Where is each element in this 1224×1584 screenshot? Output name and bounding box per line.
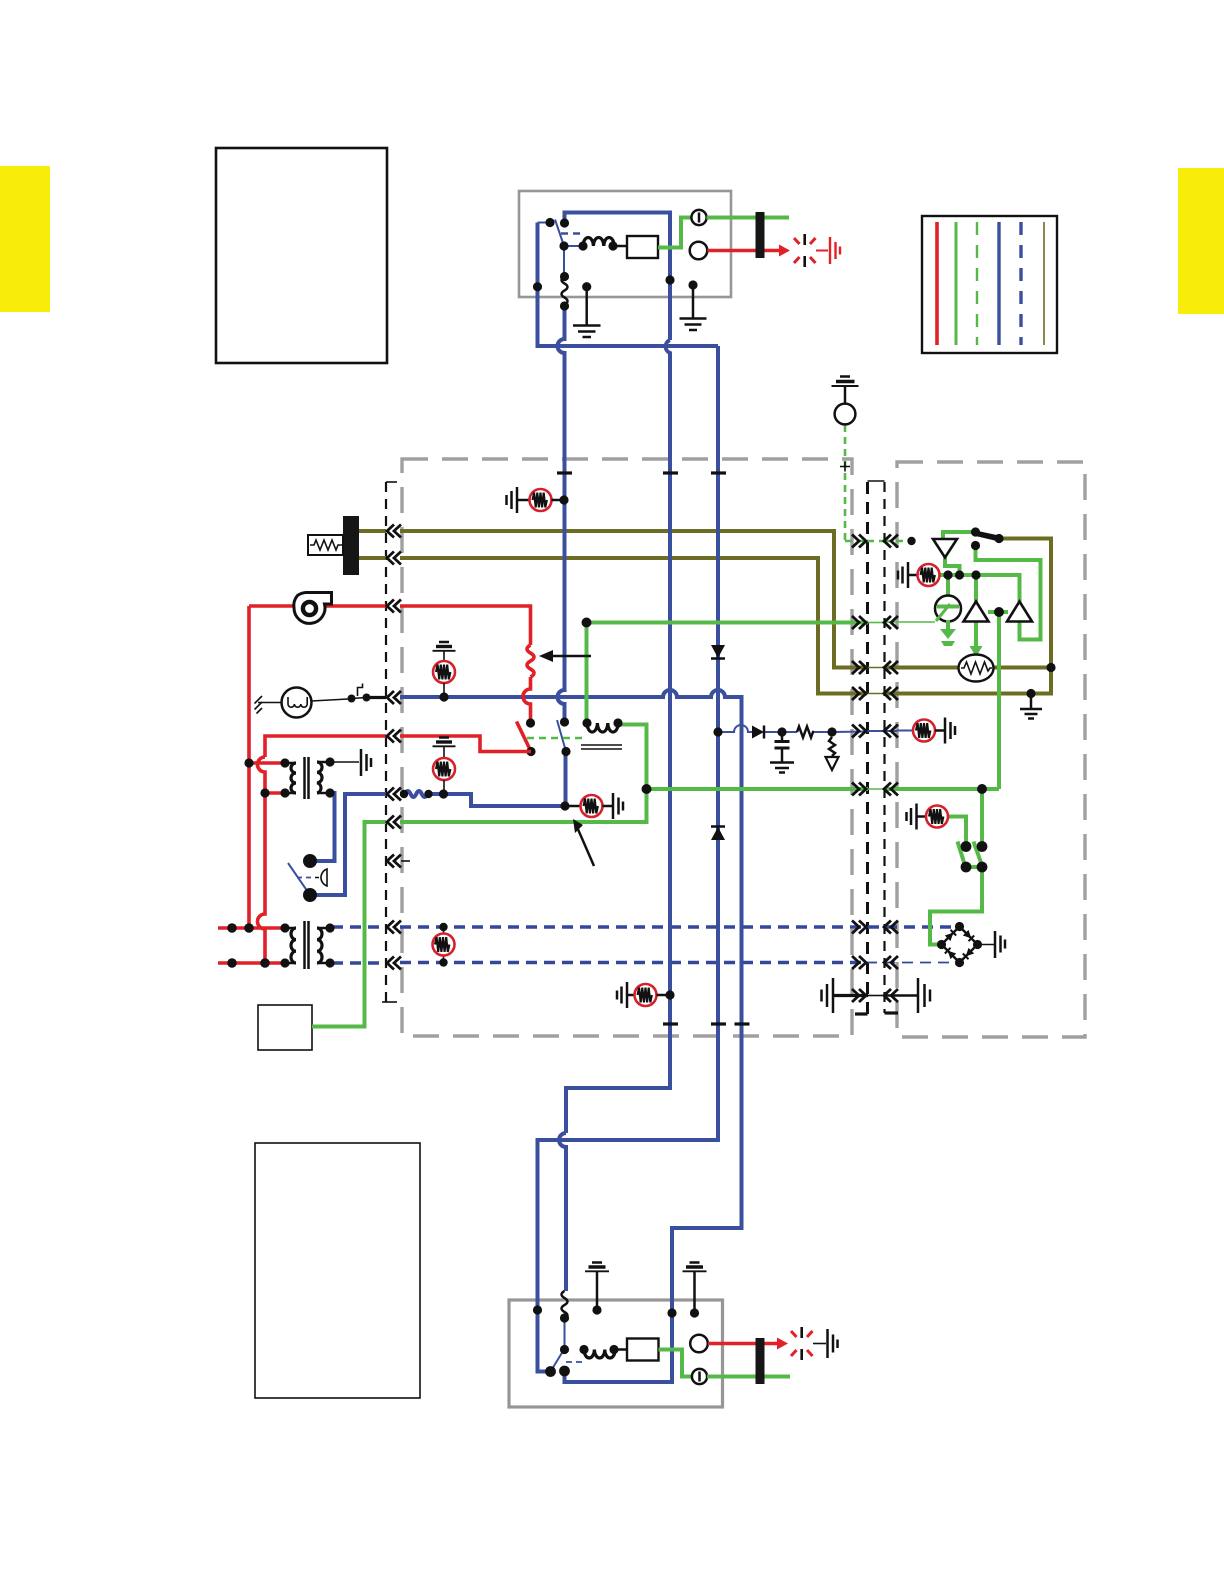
wire red T-A top row bbox=[249, 761, 285, 765]
wire green row 789 to right box bbox=[647, 787, 869, 791]
glow plug resistor zigzag bbox=[310, 540, 343, 550]
wire blue x564 hop over 346 (from CDI squiggle) bbox=[558, 305, 565, 473]
left yellow tab bbox=[0, 166, 50, 312]
top CDI switch lead thin bbox=[538, 222, 551, 224]
wire red pot to hop to contact bbox=[523, 677, 531, 723]
top CDI squiggle lead bbox=[562, 277, 568, 306]
wire blue x670 vertical with hop at 346 bbox=[566, 340, 670, 1133]
top CDI switch contact dots bbox=[545, 218, 554, 227]
bridge rectifier diamond bbox=[937, 922, 982, 967]
connector column middle B (black dashed) bbox=[883, 482, 885, 1013]
top CDI coil terminal dots bbox=[578, 241, 587, 250]
connector chevrons left column (point left) bbox=[387, 525, 401, 970]
green arrow into oval bbox=[970, 646, 983, 657]
top CDI inner box bbox=[627, 236, 658, 258]
wire blue buzzer switch circuit from transformer bbox=[310, 793, 335, 861]
wire green T2 base to loop bbox=[976, 546, 1041, 640]
bridge to ground bbox=[978, 931, 1006, 958]
wire green sensor drain bbox=[946, 620, 950, 630]
buzzer switch pivot dot bbox=[303, 888, 317, 902]
legend olive thin line bbox=[1043, 222, 1045, 345]
top connector pass-through bar bbox=[756, 212, 765, 258]
red switch contact dot bbox=[526, 718, 535, 727]
component box (small) left bbox=[258, 1005, 312, 1050]
junction dot green 789 bbox=[642, 784, 652, 794]
connector column left bottom bracket bbox=[382, 1001, 397, 1003]
top spark to ground red bbox=[816, 250, 828, 252]
wire green suppressor D to double switch bbox=[940, 817, 966, 847]
title box (empty) top-left bbox=[216, 148, 387, 363]
ground-to-ground row 995 left bbox=[822, 978, 885, 1013]
noise suppressor C between dashed rows bbox=[433, 934, 455, 956]
wire blue x718 main vertical down to bottom jog bbox=[538, 346, 719, 1372]
wire blue switch pivot down to junction 806 bbox=[564, 752, 568, 807]
wire blue dashed row 962 left of connector bbox=[332, 961, 386, 965]
legend blue solid line bbox=[997, 222, 1000, 345]
double switch blades bbox=[958, 842, 965, 865]
bottom CDI switch blade bbox=[551, 1350, 565, 1372]
wire blue thin row 730 right box to suppressor bbox=[897, 730, 913, 732]
bottom connector pass-through bar bbox=[756, 1338, 765, 1384]
junction dot olive x1051 row668 bbox=[1046, 663, 1055, 672]
wire green bus to T1 vertical bbox=[974, 575, 978, 602]
top CDI pivot down lead bbox=[563, 246, 565, 277]
blue switch (relay) contact dot bbox=[560, 717, 569, 726]
blue switch pivot dot bbox=[561, 747, 570, 756]
wire blue dashed row 962 connector to middle bbox=[400, 961, 868, 965]
CDI unit box (top) frame bbox=[519, 191, 731, 297]
test connector circle with ground (top) bbox=[832, 377, 859, 425]
junction dots green bus bbox=[943, 570, 952, 579]
wire olive row1 long (531) to vertical x834 down to row 668 bbox=[400, 531, 867, 668]
wire green row 622 from relay coil junction to connector bbox=[587, 621, 869, 625]
noise suppressor B3 (row 806) bbox=[560, 793, 623, 819]
transformer T-A core and windings bbox=[280, 757, 334, 799]
wire blue CDI top link thick bbox=[565, 213, 671, 341]
green dashed end dot bbox=[907, 537, 915, 545]
legend green dashed line bbox=[976, 222, 978, 345]
top CDI inner junction dots bbox=[533, 282, 542, 291]
connector chevrons middle left set (point right) bbox=[852, 535, 866, 1003]
connector column left (black dashed) bbox=[385, 482, 387, 1002]
noise suppressor D (right box row 816) bbox=[907, 804, 949, 830]
up triangle T2 bbox=[1007, 602, 1032, 622]
top CDI switch blade bbox=[555, 220, 564, 247]
lone chevron stub row 861 bbox=[401, 860, 410, 862]
wire green T1 base into heater oval bbox=[974, 622, 978, 651]
diode on x718 upper (pointing down) bbox=[711, 645, 725, 659]
green dashed row 541 bbox=[845, 540, 868, 543]
wire green long vertical x999 bbox=[997, 612, 1001, 789]
capacitor to ground row732 bbox=[770, 732, 794, 773]
green dashed drop from test connector bbox=[844, 425, 847, 541]
wire blue thin 732 segments bbox=[764, 731, 797, 733]
bottom green wire out bbox=[707, 1375, 790, 1379]
wire green row789 junction down to switch bbox=[980, 789, 984, 847]
ground-to-ground row 995 right bbox=[884, 978, 930, 1013]
ticks on blue verticals at bottom border bbox=[663, 1022, 678, 1025]
red switch pivot dot bbox=[526, 747, 535, 756]
connector column A bottom bracket bbox=[855, 1012, 868, 1015]
top CDI dashed link bbox=[561, 232, 582, 235]
up triangle T1 bbox=[964, 602, 989, 622]
ground below olive row694 bbox=[1020, 694, 1042, 719]
glow plug resistor box bbox=[308, 535, 343, 555]
wire red switch return to chevron row736 bbox=[400, 736, 531, 752]
CDI unit box (bottom) frame bbox=[509, 1300, 723, 1407]
pump / fan motor symbol bbox=[294, 592, 332, 623]
down triangle sensor (right box) bbox=[933, 539, 957, 558]
note box (empty) bottom-left bbox=[255, 1143, 420, 1398]
junction dot olive ground tap row694 bbox=[1026, 689, 1035, 698]
wire blue thin 732 to chevrons bbox=[832, 731, 868, 734]
wire blue thin row 732 diode chain bbox=[718, 725, 752, 732]
main harness dashed border (left big box) bbox=[402, 459, 852, 1036]
bottom CDI relay coil (loops down) bbox=[579, 1345, 627, 1358]
pot adjust arrow bbox=[539, 650, 591, 662]
bottom spark gap symbol bbox=[791, 1331, 813, 1356]
wire blue buzzer pivot to row 794 bbox=[310, 794, 386, 895]
wire blue x564 down to switch contact with hop at 697 bbox=[558, 473, 565, 722]
wire olive row2 right segment bbox=[884, 692, 897, 696]
blue switch blade mid bbox=[557, 720, 566, 752]
junction dots red bbox=[244, 758, 253, 767]
top red HT wire with arrow bbox=[708, 249, 780, 253]
bottom spark to ground black bbox=[813, 1343, 826, 1345]
top CDI connector circle I bbox=[691, 210, 706, 225]
wire red T-B bottom row bbox=[218, 961, 285, 965]
noise suppressor B1 (above horn row) bbox=[433, 642, 456, 702]
annotation arrow to suppressor B3 bbox=[573, 819, 594, 866]
junction dot dashed row 927 bbox=[439, 923, 447, 931]
horn symbol bbox=[255, 684, 387, 718]
connector chevrons middle right set (point left) bbox=[884, 535, 898, 1003]
wire green left drop to small box bbox=[312, 822, 386, 1027]
glow plug heater bar bbox=[343, 516, 359, 575]
right box switch blade bbox=[971, 527, 1004, 550]
wire green relay coil out to row 789 bbox=[618, 725, 647, 790]
top CDI connector circle plain bbox=[690, 242, 708, 260]
wire olive row1 right of connector into right box bbox=[884, 666, 958, 670]
wire green switch to bridge bbox=[930, 867, 982, 945]
legend box frame bbox=[922, 216, 1057, 353]
wire blue x566 hop over 1140 bbox=[559, 1133, 566, 1291]
buzzer dashed link bbox=[297, 877, 313, 879]
relay coil (ignition cut) loops down bbox=[581, 718, 623, 749]
top CDI ground lead 2 bbox=[680, 285, 707, 330]
wire green bus 575 with corner through T2 bbox=[940, 575, 1020, 602]
top green output wire bbox=[707, 216, 790, 220]
top CDI coil to box wire bbox=[613, 245, 627, 248]
noise suppressor link between dashed rows bbox=[443, 927, 445, 963]
wire red T-A bottom row bbox=[265, 791, 285, 795]
diode row732 (pointing right) bbox=[752, 726, 764, 739]
red pot squiggle bbox=[527, 645, 534, 677]
bottom CDI ground lead 1 bbox=[585, 1263, 609, 1311]
bottom CDI squiggle lead upper blue bbox=[564, 1318, 566, 1349]
red ignition switch blade bbox=[517, 722, 532, 752]
bottom CDI ground lead 2 bbox=[683, 1263, 707, 1314]
bottom CDI inner box bbox=[627, 1339, 659, 1361]
connector column B bottom bracket bbox=[885, 1011, 899, 1014]
green drain arrow bbox=[940, 629, 956, 639]
surge arrester (zigzag + hollow arrow down) bbox=[826, 727, 839, 770]
double switch contact dots bbox=[961, 841, 972, 852]
wire green relay coil feed vertical bbox=[585, 623, 589, 723]
wire green bus to sensor vertical bbox=[946, 575, 950, 596]
bottom red HT wire with arrow bbox=[708, 1342, 777, 1346]
wire red row606 chevron to pot corner bbox=[400, 606, 531, 645]
right yellow tab bbox=[1178, 168, 1224, 314]
wire blue dashed thin row 962 to bridge bbox=[884, 962, 950, 964]
junction dot dashed row 962 bbox=[439, 958, 447, 966]
top CDI ground lead 1 bbox=[573, 287, 601, 337]
noise suppressor F (right box row 730) bbox=[913, 718, 955, 744]
wire green thin row 622 to sensor bbox=[884, 621, 935, 623]
connector columns top bracket bbox=[868, 480, 885, 482]
sensor circle glyph bbox=[935, 596, 961, 622]
junction dots row 794 bbox=[400, 790, 408, 798]
transformer T-B core and windings bbox=[280, 921, 334, 969]
buzzer switch contact dot top bbox=[303, 854, 317, 868]
cross tick green dashed at border bbox=[840, 462, 850, 472]
double switch bottom link bbox=[966, 865, 982, 869]
wire red pump row 606 bbox=[249, 604, 386, 608]
bottom connector circle I bbox=[692, 1369, 707, 1384]
wire olive heater row2 stub bbox=[359, 556, 386, 560]
wire blue CDI left vertical + bus to x718 bbox=[538, 223, 719, 347]
top CDI relay coil (loops up) bbox=[583, 237, 614, 246]
heater oval with resistor bbox=[959, 655, 994, 682]
legend blue dashed line bbox=[1019, 222, 1022, 345]
wire red T-B top row bbox=[218, 926, 285, 930]
top spark gap symbol bbox=[794, 238, 816, 263]
wire blue dashed row 927 connector to bridge bbox=[400, 925, 952, 929]
legend red solid line bbox=[935, 222, 939, 345]
wire olive switch pivot to right vertical bbox=[897, 539, 1051, 694]
wire olive row2 long (558) to vertical x818 down to row 695 bbox=[400, 558, 867, 694]
bottom CDI squiggle entry bbox=[562, 1291, 568, 1319]
top CDI green output bbox=[658, 218, 692, 248]
wire blue horn row right of chevron bbox=[400, 696, 402, 700]
green dashed gang link bbox=[527, 737, 585, 740]
noise suppressor E (on x670 at 995) bbox=[617, 982, 675, 1008]
wire green row 822 chevron to junction bbox=[400, 789, 647, 822]
junction dot green T link bbox=[994, 607, 1004, 617]
noise suppressor A (top, on x564) bbox=[507, 487, 569, 513]
wire green thin row 622 inside connector bbox=[868, 622, 884, 624]
bottom CDI green output bbox=[659, 1350, 693, 1377]
resistor row732 bbox=[797, 727, 814, 738]
wire green right box top row 532 bbox=[943, 532, 976, 539]
wire red x249 vertical pump to transformers bbox=[247, 606, 251, 928]
legend green solid line bbox=[955, 222, 958, 345]
wire green below down-triangle to bus bbox=[945, 558, 960, 576]
wire blue dashed row 927 left of connector bbox=[332, 925, 386, 929]
junction dot green 622 bbox=[582, 618, 592, 628]
bottom CDI dashed link bbox=[566, 1361, 584, 1363]
bottom CDI blue vertical A entering bbox=[536, 1300, 540, 1310]
connector column left top bracket bbox=[386, 481, 397, 483]
buzzer icon bbox=[315, 869, 327, 886]
junction dot green row 789 bbox=[977, 784, 987, 794]
wire red x265 vertical with hops bbox=[258, 757, 265, 963]
wire red row736 left of chevron to vertical x265 bbox=[265, 736, 386, 757]
wire green T1-T2 link bbox=[988, 610, 1008, 614]
wire olive heater row1 stub bbox=[359, 529, 386, 533]
bottom connector circle plain bbox=[690, 1335, 708, 1353]
diode on x718 lower (pointing up) bbox=[711, 827, 725, 841]
bottom CDI switch dots bbox=[533, 1305, 542, 1314]
ticks on blue verticals at top border bbox=[557, 471, 572, 474]
right unit dashed border bbox=[897, 462, 1085, 1037]
connector column middle A (black dashed) bbox=[866, 482, 869, 1014]
inter-connector thin links bbox=[866, 541, 884, 963]
noise suppressor G (right box row 575) bbox=[898, 562, 940, 588]
top CDI pivot to coil thin blue bbox=[564, 245, 583, 247]
noise suppressor B2 (above row 794) bbox=[433, 738, 456, 799]
wire blue row697 chevron to corner x741 with hops bbox=[400, 690, 742, 1382]
buzzer switch blade bbox=[288, 863, 310, 895]
wire olive row1 oval to corner dot bbox=[993, 666, 1051, 670]
junction dot x718 row732 bbox=[713, 727, 722, 736]
T-A secondary to ground bbox=[330, 749, 371, 776]
wire blue row794 chevron squiggle to suppressor junction bbox=[400, 791, 565, 806]
